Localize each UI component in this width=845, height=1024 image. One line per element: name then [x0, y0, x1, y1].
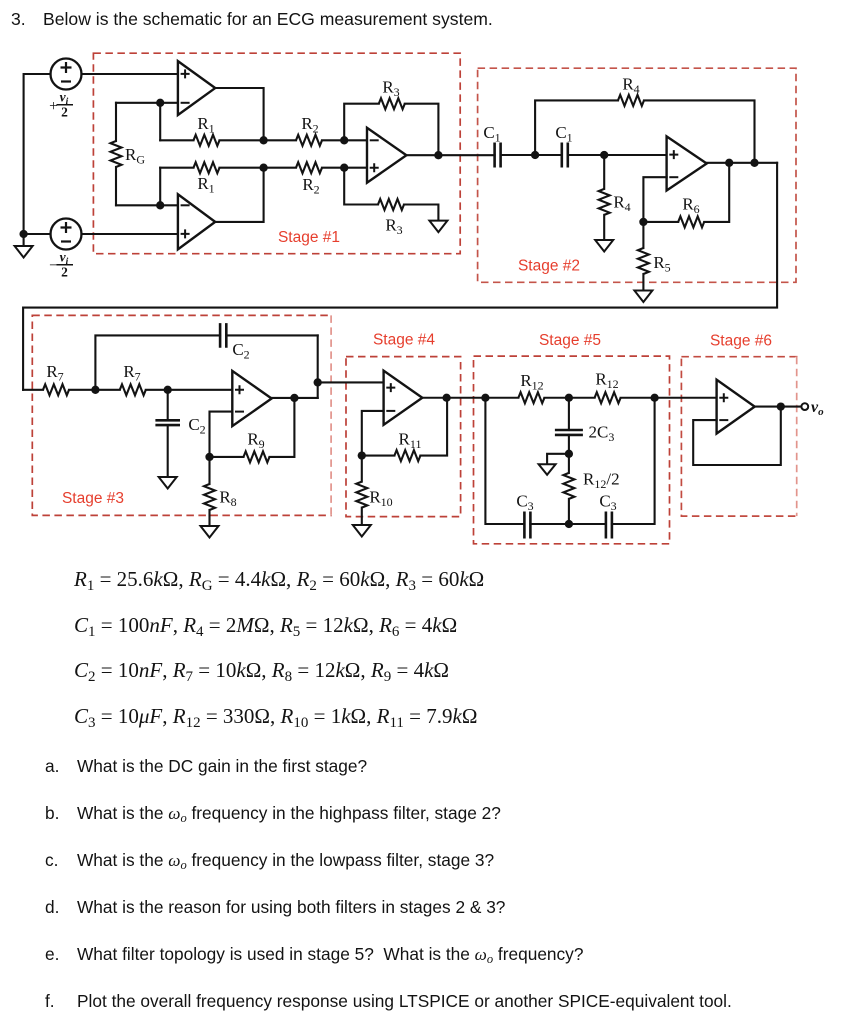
node U4 out a — [725, 159, 733, 167]
node U7 out — [777, 402, 785, 410]
op-amp U5 — [232, 371, 271, 426]
svg-text:C2: C2 — [232, 340, 249, 362]
label C1 (second) — [555, 123, 572, 145]
svg-text:Stage #5: Stage #5 — [539, 332, 601, 349]
label R1 (top) — [197, 114, 214, 136]
op-amp U6 — [384, 371, 423, 425]
wire V1 to U1+ — [82, 73, 179, 75]
label R9 — [247, 430, 264, 452]
svg-text:2C3: 2C3 — [589, 423, 615, 445]
label R2 (bottom) — [302, 175, 319, 197]
op-amp U1 — [178, 61, 215, 115]
wire C1 to U4+ — [568, 154, 667, 156]
node U2- feedback — [156, 201, 164, 209]
stage 5 label — [539, 332, 601, 349]
resistor R12 (first) — [485, 392, 569, 403]
resistor R11 — [362, 398, 447, 461]
resistor R12 (second) — [569, 392, 655, 403]
node U3- input — [340, 136, 348, 144]
wire to U5+ — [168, 389, 233, 391]
ground (R3) — [429, 221, 447, 233]
stage 6 boundary — [681, 357, 796, 516]
ground (R4) — [595, 240, 613, 252]
node R5/R6/U4- — [639, 218, 647, 226]
capacitor C3 (right) — [569, 398, 655, 539]
wire U1 output — [215, 88, 263, 140]
svg-text:R4: R4 — [613, 193, 630, 215]
label R7 (first) — [46, 362, 63, 384]
label R1 (bottom) — [197, 174, 214, 196]
node R8/R9/U5- — [205, 453, 213, 461]
node U6 out — [442, 394, 450, 402]
svg-text:Stage #3: Stage #3 — [62, 490, 124, 507]
stage 2 label — [518, 258, 580, 275]
stage 4 boundary — [346, 357, 461, 517]
stage 4 label — [373, 332, 435, 349]
svg-text:2: 2 — [61, 105, 68, 120]
svg-text:R10: R10 — [369, 488, 392, 510]
svg-text:R5: R5 — [653, 253, 670, 275]
svg-text:R7: R7 — [46, 362, 63, 384]
wire stage2 to stage3 (long) — [23, 163, 777, 390]
wire U5 output — [272, 397, 318, 399]
svg-text:C3: C3 — [516, 492, 533, 514]
wire R2 to U3+ — [344, 167, 367, 169]
label C2 (shunt) — [188, 415, 205, 437]
node R7/C2shunt — [164, 386, 172, 394]
svg-text:Stage #6: Stage #6 — [710, 332, 772, 349]
resistor R2 (bottom) — [264, 162, 345, 173]
node U1 out / R1 / R2 — [259, 136, 267, 144]
stage 6 label — [710, 332, 772, 349]
label R5 — [653, 253, 670, 275]
wire to ground hook — [547, 454, 569, 465]
op-amp U2 — [178, 194, 215, 249]
node stage5 in — [481, 394, 489, 402]
node U3+ input — [340, 164, 348, 172]
label R12 (first) — [520, 371, 543, 393]
svg-text:R2: R2 — [301, 114, 318, 136]
svg-text:vo: vo — [811, 399, 824, 418]
wire U2 output — [215, 168, 263, 222]
stage 5 boundary — [474, 356, 670, 544]
svg-text:R3: R3 — [382, 78, 399, 100]
label R2 (top) — [301, 114, 318, 136]
resistor R9 — [210, 398, 295, 463]
wire U7 feedback — [693, 407, 781, 465]
capacitor C1 (second) — [562, 143, 568, 168]
svg-text:C2: C2 — [188, 415, 205, 437]
label R7 (second) — [123, 362, 140, 384]
wire U4- to R6 node — [643, 177, 666, 222]
capacitor C1 (first) — [495, 143, 501, 168]
wire stage5 to U7+ — [655, 397, 717, 399]
output terminal vo — [801, 403, 808, 410]
resistor R7 (first) — [23, 384, 95, 395]
ground (sources) — [15, 246, 33, 258]
svg-text:C1: C1 — [483, 123, 500, 145]
svg-text:R4: R4 — [622, 75, 639, 97]
node C1/C1/R4fb — [531, 151, 539, 159]
label R11 — [399, 430, 422, 452]
svg-text:C3: C3 — [599, 492, 616, 514]
stage 1 label — [278, 229, 340, 246]
wire C2fb down / link to stage4 — [318, 335, 384, 398]
label C3 (right) — [599, 492, 616, 514]
resistor R4 (shunt) — [599, 155, 610, 240]
label R12/2 — [583, 470, 620, 492]
label vo — [811, 399, 824, 418]
wire sources left loop — [24, 74, 51, 234]
svg-text:Stage #2: Stage #2 — [518, 258, 580, 275]
node source common — [19, 230, 27, 238]
wire U4 output — [707, 162, 777, 164]
wire stage1 out to C1 — [406, 154, 494, 156]
label C3 (left) — [516, 492, 533, 514]
svg-text:Stage #4: Stage #4 — [373, 332, 435, 349]
node stage3 out link — [314, 378, 322, 386]
svg-text:RG: RG — [125, 145, 145, 167]
svg-text:R12/2: R12/2 — [583, 470, 620, 492]
node U5 out — [290, 394, 298, 402]
svg-text:R12: R12 — [520, 371, 543, 393]
node R12 mid — [565, 394, 573, 402]
resistor RG — [111, 103, 122, 206]
resistor R7 (second) — [95, 384, 167, 395]
resistor R12/2 — [563, 454, 574, 524]
svg-text:R3: R3 — [385, 216, 402, 238]
resistor R6 — [643, 163, 729, 228]
ground (R8) — [201, 526, 219, 538]
resistor R3 (to ground) — [344, 168, 438, 221]
wire U7 output — [755, 406, 802, 408]
resistor R3 (feedback) — [344, 98, 438, 155]
label C1 (first) — [483, 123, 500, 145]
voltage source V1 +vi/2 — [51, 59, 82, 90]
wire U6- to R11 node — [362, 411, 384, 456]
svg-text:R2: R2 — [302, 175, 319, 197]
capacitor C2 (shunt) — [155, 390, 180, 477]
ground (C2) — [159, 477, 177, 489]
ground (stage5) — [539, 464, 556, 475]
label R8 — [219, 488, 236, 510]
svg-text:R12: R12 — [595, 370, 618, 392]
wire to ground — [23, 234, 25, 246]
svg-text:R9: R9 — [247, 430, 264, 452]
label R3 (bottom) — [385, 216, 402, 238]
stage 3 boundary — [32, 315, 331, 515]
wire RG top to U1- — [116, 102, 178, 104]
resistor R1 (top) — [160, 135, 263, 146]
op-amp U3 — [367, 128, 406, 183]
wire U2- up to R1 — [159, 168, 161, 206]
svg-text:R11: R11 — [399, 430, 422, 452]
resistor R8 — [204, 457, 215, 526]
resistor R4 (feedback) — [535, 95, 754, 163]
label -vi/2 — [49, 250, 73, 280]
node R10/R11/U6- — [358, 451, 366, 459]
svg-text:C1: C1 — [555, 123, 572, 145]
wire U6 output — [422, 397, 485, 399]
label R3 (top) — [382, 78, 399, 100]
svg-text:R1: R1 — [197, 114, 214, 136]
svg-text:Stage #1: Stage #1 — [278, 229, 340, 246]
capacitor C3 (left) — [485, 398, 569, 539]
stage 3 label — [62, 490, 124, 507]
wire RG bottom to U2- — [116, 204, 178, 206]
node stage1 output — [434, 151, 442, 159]
capacitor C2 (feedback) — [95, 323, 317, 390]
node stage5 out — [650, 394, 658, 402]
wire R2 to U3- — [344, 139, 367, 141]
wire U5- to R9 node — [210, 412, 233, 457]
label R4 (shunt) — [613, 193, 630, 215]
ground (R5) — [634, 291, 652, 303]
op-amp U7 — [717, 380, 755, 434]
svg-text:2: 2 — [61, 265, 68, 280]
voltage source V2 -vi/2 — [51, 219, 82, 250]
node U1- feedback — [156, 99, 164, 107]
resistor R2 (top) — [264, 135, 345, 146]
label C2 (feedback) — [232, 340, 249, 362]
svg-text:R8: R8 — [219, 488, 236, 510]
node bottom mid — [565, 520, 573, 528]
label R4 (feedback) — [622, 75, 639, 97]
ground (R10) — [353, 525, 371, 537]
node U4 out b — [750, 159, 758, 167]
node below 2C3 — [565, 450, 573, 458]
label R6 — [682, 195, 699, 217]
label R10 — [369, 488, 392, 510]
op-amp U4 — [667, 136, 707, 190]
resistor R10 — [356, 456, 367, 525]
wire C1 to C1 — [501, 154, 562, 156]
label R12 (second) — [595, 370, 618, 392]
label 2C3 — [589, 423, 615, 445]
label +vi/2 — [49, 90, 73, 120]
label RG — [125, 145, 145, 167]
wire U1- down to R1 — [159, 103, 161, 141]
resistor R1 (bottom) — [160, 162, 263, 173]
capacitor 2C3 — [555, 398, 583, 454]
node R7/R7/C2fb — [91, 386, 99, 394]
node U2 out / R1 / R2 — [259, 164, 267, 172]
svg-text:R1: R1 — [197, 174, 214, 196]
resistor R5 — [638, 222, 649, 291]
wire V2 to U2+ — [82, 233, 179, 235]
svg-text:+: + — [49, 98, 58, 115]
node C1/R4shunt — [600, 151, 608, 159]
svg-text:R7: R7 — [123, 362, 140, 384]
stage 1 boundary — [93, 53, 460, 254]
svg-text:R6: R6 — [682, 195, 699, 217]
stage 2 boundary — [478, 68, 796, 282]
